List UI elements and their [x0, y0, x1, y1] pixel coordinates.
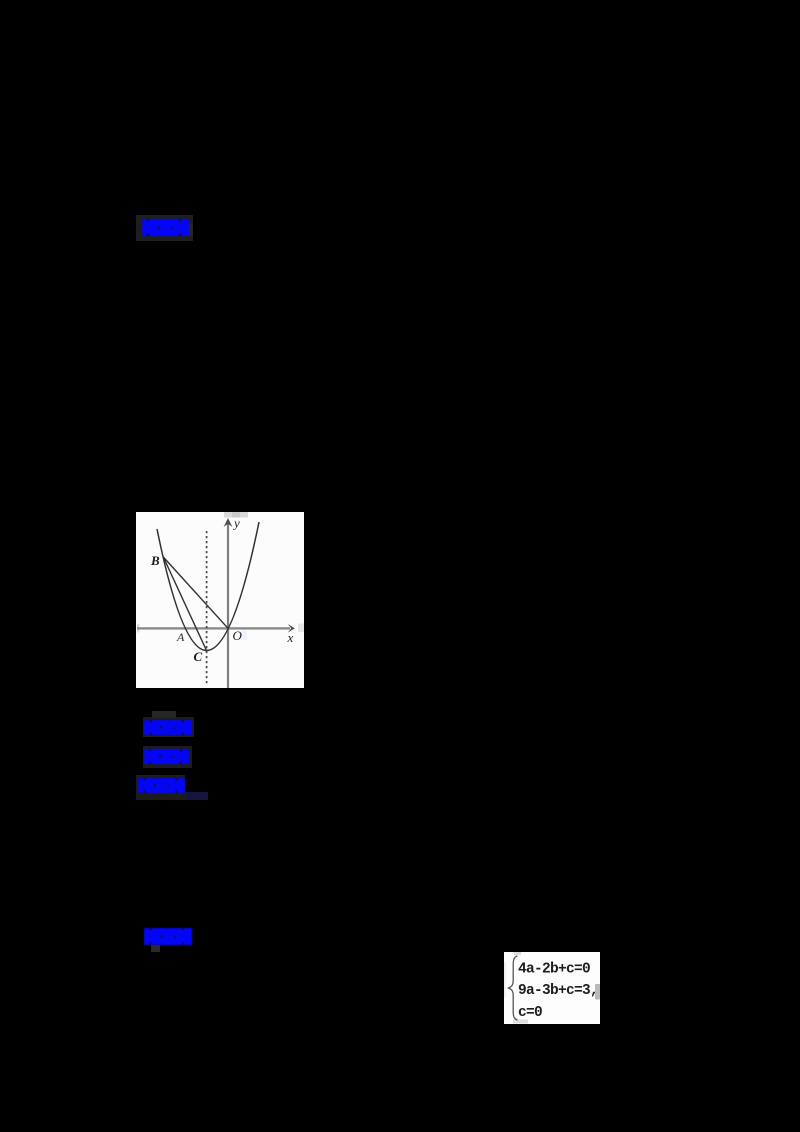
gray tab below jieda [151, 945, 160, 952]
highlight box behind fenxi label [136, 775, 185, 800]
y-axis arrow [224, 518, 233, 527]
equation brace [504, 952, 600, 1024]
light strip left edge [504, 962, 506, 997]
highlight box behind kaodian label [143, 717, 194, 737]
svg-text:c=0: c=0 [518, 1005, 542, 1021]
line B to C [163, 557, 206, 651]
svg-text:x: x [287, 630, 294, 645]
svg-text:9a-3b+c=3,: 9a-3b+c=3, [518, 983, 598, 999]
svg-text:y: y [232, 516, 240, 531]
gray smudge right near comma [595, 984, 600, 1000]
light blue tinge near O [241, 631, 247, 640]
y-axis [227, 520, 229, 688]
gray smudge bottom [513, 1020, 528, 1024]
blue label [da-an] (answer) [142, 219, 189, 236]
parabola [157, 522, 259, 651]
dark residue above kaodian [152, 711, 176, 718]
figure background [136, 512, 304, 688]
faint residue right of answer label [189, 223, 193, 236]
blue label [kao-dian] [144, 720, 192, 735]
left curly brace [509, 956, 518, 1020]
svg-text:4a-2b+c=0: 4a-2b+c=0 [518, 961, 590, 977]
highlight box behind answer label [136, 215, 193, 241]
svg-text:B: B [150, 553, 160, 568]
svg-text:O: O [233, 628, 243, 643]
svg-text:C: C [194, 649, 203, 664]
gray smudge right of x-axis [298, 624, 304, 633]
blue label [jie-da] (solution) [144, 928, 192, 945]
equation system white box [504, 952, 600, 1024]
line B to O [163, 557, 228, 628]
highlight box behind zhuanti label [143, 746, 192, 768]
gray smudge top [224, 512, 248, 518]
gray tick left end of x-axis [137, 624, 140, 633]
gray smudge top [514, 952, 521, 955]
x-axis [137, 627, 290, 629]
blue label [zhuan-ti] [144, 749, 189, 764]
svg-text:A: A [176, 630, 185, 644]
navy residue after fenxi [185, 792, 208, 800]
blue label [fen-xi] [138, 778, 185, 793]
x-axis arrow [288, 624, 295, 633]
graph figure white box [136, 512, 304, 688]
dashed axis of symmetry [206, 531, 208, 684]
